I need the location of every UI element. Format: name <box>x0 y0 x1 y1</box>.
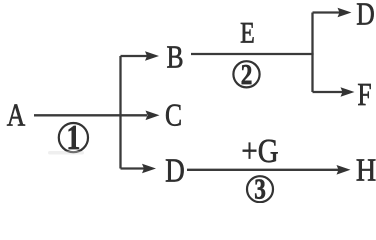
arrowhead into F <box>341 87 355 97</box>
circled label 2 <box>233 59 259 91</box>
svg-text:F: F <box>357 77 371 112</box>
wire branch to F <box>313 91 344 93</box>
svg-text:B: B <box>166 40 183 75</box>
svg-text:1: 1 <box>66 118 80 157</box>
wire branch to top D <box>313 11 341 13</box>
arrowhead into H <box>337 165 351 175</box>
svg-text:D: D <box>356 0 374 32</box>
wire right vertical branch <box>311 13 313 93</box>
arrowhead into B <box>145 51 159 61</box>
svg-text:D: D <box>165 152 185 190</box>
svg-text:2: 2 <box>241 59 253 91</box>
circled label 3 <box>247 173 273 205</box>
svg-text:E: E <box>240 16 255 49</box>
svg-text:C: C <box>165 98 182 133</box>
wire B to right branch (E line) <box>191 53 314 55</box>
arrowhead into C <box>146 111 160 121</box>
svg-text:3: 3 <box>254 173 266 203</box>
svg-text:A: A <box>7 98 26 133</box>
scan smudge <box>48 151 84 155</box>
svg-text:+G: +G <box>241 132 278 170</box>
circled label 1 <box>59 118 88 157</box>
wire branch to B <box>121 55 148 57</box>
wire left vertical branch <box>119 56 121 169</box>
wire D to H (+G line) <box>187 169 339 171</box>
svg-text:H: H <box>356 152 376 188</box>
wire branch to lower D <box>121 167 145 169</box>
wire A to C <box>34 114 147 116</box>
arrowhead into top D <box>338 8 352 18</box>
arrowhead into lower D <box>142 164 156 174</box>
